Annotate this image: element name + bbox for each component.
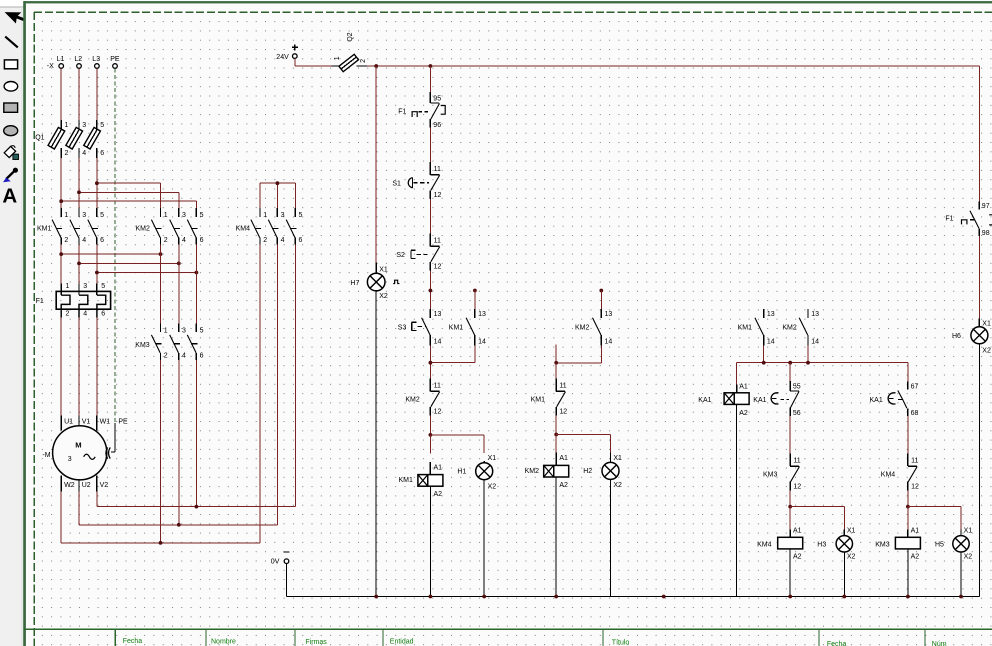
junction L1 branch [59, 199, 63, 203]
contactor KM3 main contacts [135, 323, 203, 360]
svg-text:F1: F1 [36, 298, 44, 305]
svg-text:KM4: KM4 [236, 226, 251, 233]
auxiliary contact KM1 11-12 NC [531, 379, 568, 416]
terminal 0V [271, 552, 290, 565]
wire KM3 pole3 down [195, 360, 197, 507]
junction rung3 at KM1 aux [762, 361, 766, 365]
wire KM2 pole1 down to KM3 [160, 245, 162, 324]
svg-text:12: 12 [434, 409, 442, 416]
svg-text:3: 3 [82, 122, 86, 129]
svg-text:W1: W1 [100, 418, 111, 425]
wire F1 to motor U1 [60, 318, 62, 416]
wire 24V to rail [295, 59, 332, 66]
svg-text:4: 4 [82, 150, 86, 157]
svg-text:KM2: KM2 [782, 325, 797, 332]
svg-text:A1: A1 [911, 528, 920, 535]
svg-text:1: 1 [334, 56, 341, 60]
svg-text:95: 95 [433, 95, 441, 102]
toolbar dropper icon [3, 168, 18, 183]
svg-text:0V: 0V [271, 558, 280, 565]
svg-text:Fecha: Fecha [827, 641, 847, 646]
svg-text:13: 13 [434, 311, 442, 318]
wire stub above rung2 junction [555, 345, 557, 363]
junction rail at F1 branch [429, 64, 433, 68]
junction rung2 [554, 361, 558, 365]
svg-text:KM3: KM3 [135, 342, 150, 349]
svg-text:14: 14 [434, 338, 442, 345]
svg-text:KM2: KM2 [136, 226, 151, 233]
auxiliary contact KM1 13-14 rung3 [738, 309, 775, 346]
auxiliary contact KM2 13-14 [575, 309, 612, 346]
coil KA1 [698, 383, 749, 417]
wire rung3 to timed contact 67 [907, 363, 909, 382]
toolbar select-arrow icon [5, 4, 27, 26]
wire branch L2 to KM2 pole2 [79, 192, 179, 208]
thermal contact F1 95-96 [398, 92, 445, 129]
svg-text:11: 11 [911, 457, 918, 464]
svg-text:F1: F1 [945, 215, 953, 222]
wire KM4 coil to 0V [789, 549, 791, 597]
contactor KM4 main contacts [236, 208, 303, 245]
junction node rung2 feed [599, 289, 603, 309]
wire right rail drop [978, 66, 980, 201]
junction rung2 coil branch [554, 433, 558, 437]
wire KM2 coil to 0V [555, 477, 557, 597]
svg-text:14: 14 [767, 338, 775, 345]
wire rail to H7 [375, 66, 377, 263]
wire KM1 NC to coil branch [555, 416, 557, 435]
svg-text:13: 13 [811, 311, 819, 318]
wire control rail [367, 65, 980, 67]
svg-text:A2: A2 [434, 491, 443, 498]
wire KA1 coil to 0V [736, 404, 738, 596]
svg-text:KM4: KM4 [881, 472, 896, 479]
svg-text:3: 3 [182, 212, 186, 219]
thermal contact F1 97-98 [945, 201, 992, 237]
junction rung1 coil branch [429, 433, 433, 437]
wire H7 to 0V rail [375, 291, 377, 597]
svg-text:4: 4 [83, 310, 87, 317]
wire bridge KM1-KM2 pole1 [61, 253, 160, 255]
svg-text:1: 1 [65, 122, 69, 129]
junction 0V at KM3 coil [906, 595, 910, 599]
svg-text:V1: V1 [82, 418, 91, 425]
svg-text:6: 6 [200, 352, 204, 359]
wire 98 to H6 [978, 236, 980, 319]
wire L2 drop to Q1 [78, 68, 80, 120]
svg-text:96: 96 [433, 122, 441, 129]
svg-text:KM3: KM3 [763, 472, 778, 479]
svg-text:6: 6 [299, 237, 303, 244]
wire KM1 pole2 down [78, 245, 80, 284]
junction 0V at H5 [959, 595, 963, 599]
svg-text:2: 2 [164, 237, 168, 244]
wire motor W2 to KM4 pole1 [61, 492, 260, 543]
junction 0V at KM1 coil [429, 595, 433, 599]
wire branch to H3 [790, 507, 844, 530]
terminal L2 [74, 56, 82, 68]
wire KM4 pole1 down [259, 245, 261, 543]
svg-text:2: 2 [64, 237, 68, 244]
motor M 3~ [42, 416, 128, 492]
wire F1 to S1 [429, 128, 431, 162]
svg-text:4: 4 [182, 352, 186, 359]
svg-text:3: 3 [281, 212, 285, 219]
svg-text:97: 97 [982, 203, 990, 210]
svg-text:11: 11 [793, 457, 800, 464]
svg-text:U1: U1 [64, 418, 73, 425]
junction 0V at H7 [374, 595, 378, 599]
svg-text:X2: X2 [964, 553, 973, 560]
toolbar filled rectangle icon [4, 103, 18, 112]
auxiliary contact KM3 11-12 NC [763, 453, 801, 490]
PE connection to motor frame [106, 423, 115, 459]
junction rung3 coil branch left [788, 505, 792, 509]
junction node KM1 aux feed [473, 289, 477, 309]
svg-text:5: 5 [200, 328, 204, 335]
svg-text:11: 11 [434, 238, 441, 245]
wire rung2 down [555, 363, 557, 379]
svg-text:14: 14 [478, 338, 486, 345]
svg-text:6: 6 [100, 150, 104, 157]
wire KM2 pole3 down to KM3 [195, 245, 197, 324]
lamp H6 [952, 319, 991, 355]
svg-text:2: 2 [263, 237, 267, 244]
svg-text:A1: A1 [559, 455, 568, 462]
wire S2 to S3 [429, 271, 431, 309]
wire branch to H5 [908, 507, 961, 530]
svg-text:S3: S3 [398, 325, 407, 332]
svg-text:-X: -X [47, 63, 54, 70]
toolbar line icon [5, 37, 18, 48]
svg-text:X2: X2 [847, 553, 856, 560]
svg-text:H3: H3 [817, 542, 826, 549]
junction 0V at H3 [842, 595, 846, 599]
svg-text:2: 2 [164, 352, 168, 359]
coil KM2 [525, 452, 569, 489]
svg-text:A1: A1 [739, 383, 748, 390]
svg-text:KM1: KM1 [399, 477, 414, 484]
svg-text:12: 12 [559, 409, 567, 416]
svg-text:4: 4 [82, 237, 86, 244]
junction 0V at KM4 coil [788, 595, 792, 599]
junction KM4 bridge [276, 181, 280, 185]
timed contact KA1 55-56 [753, 381, 800, 417]
svg-text:3: 3 [83, 283, 87, 290]
svg-text:H6: H6 [952, 333, 961, 340]
svg-text:5: 5 [101, 283, 105, 290]
svg-text:Fecha: Fecha [123, 638, 143, 645]
svg-text:X1: X1 [964, 528, 973, 535]
junction rung3 coil branch right [906, 505, 910, 509]
svg-text:Q1: Q1 [35, 135, 44, 142]
auxiliary contact KM4 11-12 NC [881, 453, 919, 490]
contactor KM2 main contacts [136, 208, 204, 245]
junction rail at H7 branch [374, 64, 378, 68]
lamp H7 [350, 263, 399, 301]
svg-text:3: 3 [82, 212, 86, 219]
svg-text:3: 3 [182, 328, 186, 335]
wire KM1 pole1 down [60, 245, 62, 284]
svg-text:14: 14 [605, 338, 613, 345]
wire KM2 aux drop rung3 [807, 345, 809, 362]
wire motor V2 to KM4 pole3 [97, 492, 295, 507]
coil KM1 [399, 462, 443, 498]
svg-text:13: 13 [767, 311, 775, 318]
svg-text:H5: H5 [935, 542, 944, 549]
svg-text:KM4: KM4 [757, 542, 772, 549]
pushbutton S1 [392, 162, 441, 199]
svg-text:56: 56 [793, 410, 801, 417]
wire bridge KM1-KM2 pole3 [97, 272, 196, 274]
svg-text:W2: W2 [64, 482, 75, 489]
svg-text:KA1: KA1 [753, 397, 766, 404]
auxiliary contact KM2 13-14 rung3 [782, 309, 819, 346]
svg-text:KA1: KA1 [698, 397, 711, 404]
lamp H3 [817, 528, 855, 561]
svg-text:S2: S2 [396, 252, 405, 259]
wire KM3 pole2 down [178, 360, 180, 525]
junction 0V spare node [662, 595, 666, 599]
svg-text:KM1: KM1 [449, 325, 464, 332]
svg-text:3: 3 [68, 456, 72, 463]
svg-text:U2: U2 [82, 482, 91, 489]
wire 68 to KM4 NC [907, 416, 909, 454]
svg-text:H1: H1 [457, 469, 466, 476]
wire F1 to motor W1 [96, 318, 98, 416]
wire stub KM4 coil [789, 507, 791, 530]
terminal L1 [57, 56, 65, 68]
terminal 24V [276, 44, 298, 61]
svg-text:5: 5 [100, 122, 104, 129]
wire rung3 to timed contact 55 [789, 363, 791, 381]
svg-text:2: 2 [65, 150, 69, 157]
junction bridge2 right [177, 262, 181, 266]
svg-text:1: 1 [164, 328, 168, 335]
wire S1 to S2 [429, 199, 431, 233]
svg-text:L2: L2 [74, 56, 82, 63]
terminal PE [110, 56, 120, 68]
title block dividers [115, 630, 925, 646]
junction V2 row at KM3 [195, 505, 199, 509]
wire branch L1 to KM2 pole3 [61, 201, 196, 208]
svg-text:V2: V2 [100, 482, 109, 489]
wire KM2 pole2 down to KM3 [178, 245, 180, 324]
svg-text:11: 11 [434, 383, 441, 390]
contactor KM1 main contacts [37, 208, 104, 245]
pushbutton S2 [396, 234, 441, 271]
pushbutton S3 [398, 309, 442, 346]
junction node rung1 feed [429, 289, 433, 293]
wire H3 to 0V [843, 552, 845, 597]
svg-text:X2: X2 [982, 347, 991, 354]
wire L3 Q1 to KM1 [96, 158, 98, 208]
wire rail to F1 95 [429, 66, 431, 92]
toolbar ellipse icon [4, 82, 18, 92]
wire H6 to 0V [978, 344, 980, 597]
svg-text:11: 11 [559, 383, 566, 390]
wire KM4 pole3 down [294, 245, 296, 507]
svg-text:KA1: KA1 [870, 397, 883, 404]
wire KM1 aux drop rung3 [763, 345, 765, 362]
svg-text:14: 14 [811, 338, 819, 345]
wire KM1 pole3 down [96, 245, 98, 284]
svg-text:24V: 24V [276, 54, 289, 61]
svg-text:5: 5 [299, 212, 303, 219]
left toolbar panel [0, 0, 24, 646]
svg-text:13: 13 [478, 311, 486, 318]
svg-text:H7: H7 [350, 280, 359, 287]
coil KM3 [875, 528, 920, 561]
svg-text:4: 4 [281, 237, 285, 244]
coil KM4 [757, 528, 803, 561]
junction rung3 at timer 55 [788, 361, 792, 365]
wire S3 bottom [429, 345, 431, 378]
svg-text:5: 5 [100, 212, 104, 219]
lamp H5 [935, 528, 972, 561]
wire bridge KM1-KM2 pole2 [79, 262, 179, 264]
junction rung1 [429, 361, 433, 365]
toolbar filled ellipse icon [4, 126, 18, 136]
svg-text:55: 55 [793, 383, 801, 390]
svg-text:A: A [2, 185, 17, 208]
svg-text:98: 98 [982, 230, 990, 237]
wire rung3 bus [737, 362, 908, 364]
svg-text:5: 5 [200, 212, 204, 219]
junction 0V at H1 [482, 595, 486, 599]
svg-text:A2: A2 [793, 553, 802, 560]
svg-text:KM2: KM2 [525, 468, 540, 475]
wire stub KM3 coil [907, 507, 909, 530]
svg-text:A1: A1 [793, 528, 802, 535]
svg-text:L3: L3 [92, 56, 100, 63]
svg-text:67: 67 [911, 383, 919, 390]
junction W2 row at KM3 [159, 541, 163, 545]
wire KM2 aux to junction [556, 345, 601, 363]
junction U2 row at KM3 [177, 523, 181, 527]
wire KM4 pole2 down [276, 245, 278, 525]
lamp H1 [457, 455, 496, 491]
svg-text:Q2: Q2 [347, 32, 354, 41]
svg-text:6: 6 [100, 237, 104, 244]
svg-text:A2: A2 [559, 482, 568, 489]
svg-text:2: 2 [360, 59, 367, 63]
svg-text:6: 6 [200, 237, 204, 244]
svg-text:11: 11 [434, 166, 441, 173]
wire KM4 top bridge [260, 183, 295, 208]
svg-text:68: 68 [911, 410, 919, 417]
svg-text:6: 6 [101, 310, 105, 317]
svg-text:F1: F1 [398, 108, 406, 115]
svg-text:12: 12 [793, 484, 801, 491]
wire branch to H2 [556, 435, 610, 453]
junction bridge1 left [59, 252, 63, 256]
svg-text:12: 12 [434, 192, 442, 199]
junction bridge1 right [159, 252, 163, 256]
wire H5 to 0V [960, 552, 962, 597]
wire H2 to 0V [610, 479, 612, 596]
svg-text:13: 13 [605, 311, 613, 318]
junction bridge3 right [195, 271, 199, 275]
wire stub KM2 coil [555, 435, 557, 453]
timed contact KA1 67-68 [870, 382, 919, 417]
wire rung3 to KA1 coil [736, 363, 738, 385]
svg-text:X2: X2 [488, 484, 497, 491]
svg-text:L1: L1 [57, 56, 65, 63]
svg-text:X1: X1 [613, 455, 622, 462]
wire KM3 NC to coil branch [789, 491, 791, 507]
junction rung3 at KM2 aux [806, 361, 810, 365]
toolbar fill-bucket icon [4, 146, 18, 160]
svg-text:1: 1 [64, 212, 68, 219]
wire L1 Q1 to KM1 [60, 158, 62, 208]
svg-text:KM2: KM2 [405, 397, 420, 404]
junction L2 branch [77, 190, 81, 194]
wire KM1 aux to junction [430, 345, 475, 362]
svg-text:X1: X1 [488, 455, 497, 462]
svg-text:X2: X2 [613, 482, 622, 489]
svg-text:X1: X1 [847, 528, 856, 535]
svg-text:PE: PE [118, 418, 128, 425]
svg-text:X1: X1 [982, 321, 991, 328]
wire KM1 coil to 0V [429, 486, 431, 596]
svg-text:KM2: KM2 [575, 325, 590, 332]
svg-text:A1: A1 [434, 464, 443, 471]
wire stub KM1 coil [429, 435, 431, 454]
wire L2 Q1 to KM1 [78, 158, 80, 208]
wire F1 to motor V1 [78, 318, 80, 416]
svg-text:M: M [75, 441, 81, 450]
svg-text:X1: X1 [379, 266, 388, 273]
svg-text:Núm: Núm [932, 641, 947, 646]
wire KM4 NC to coil branch [907, 491, 909, 507]
svg-text:KM1: KM1 [531, 397, 546, 404]
wire branch to H1 [430, 435, 484, 453]
junction bridge3 left [95, 271, 99, 275]
wire KM2 NC to coil branch [429, 416, 431, 435]
wire KM3 coil to 0V [907, 549, 909, 597]
svg-text:1: 1 [263, 212, 267, 219]
svg-text:2: 2 [66, 310, 70, 317]
breaker Q1 [35, 120, 104, 158]
svg-text:H2: H2 [583, 468, 592, 475]
svg-text:Nombre: Nombre [211, 639, 236, 646]
svg-text:1: 1 [66, 283, 70, 290]
svg-text:KM1: KM1 [37, 226, 52, 233]
wire L1 drop to Q1 [60, 68, 62, 120]
wire branch L3 to KM2 pole1 [97, 183, 161, 208]
wire motor U2 to KM4 pole2 [79, 492, 277, 525]
svg-text:KM3: KM3 [875, 542, 890, 549]
svg-text:S1: S1 [392, 181, 401, 188]
svg-text:Título: Título [612, 639, 630, 646]
overload relay F1 power block [36, 283, 111, 317]
svg-text:X2: X2 [379, 293, 388, 300]
wire KM3 pole1 down [160, 360, 162, 543]
wire PE dashed conductor [114, 68, 116, 423]
svg-text:Firmas: Firmas [305, 639, 327, 646]
wire H1 to 0V [483, 480, 485, 597]
auxiliary contact KM2 11-12 NC [405, 379, 441, 416]
svg-text:A2: A2 [739, 410, 748, 417]
title block top line [24, 628, 992, 630]
svg-text:-M: -M [42, 452, 50, 459]
terminal L3 [92, 56, 100, 68]
svg-text:12: 12 [434, 264, 442, 271]
lamp H2 [583, 452, 622, 489]
svg-text:12: 12 [911, 484, 919, 491]
svg-text:4: 4 [182, 237, 186, 244]
